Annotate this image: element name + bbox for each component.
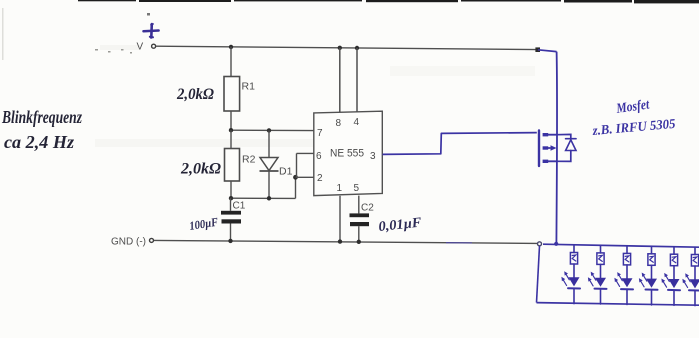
wire GND rail xyxy=(154,240,537,243)
svg-text:7: 7 xyxy=(317,128,323,139)
wire pin2 stub xyxy=(296,176,315,178)
svg-text:2: 2 xyxy=(317,173,323,184)
LED branch 4 xyxy=(639,247,658,305)
junction D1 bottom xyxy=(267,196,271,200)
svg-text:8: 8 xyxy=(336,118,342,129)
LED branch 3 xyxy=(614,246,633,304)
wire up to pin2 node xyxy=(295,177,297,198)
wire node to pin7 xyxy=(231,129,314,131)
junction R2/C1 xyxy=(229,196,233,200)
svg-text:GND (-): GND (-) xyxy=(111,237,146,248)
svg-text:R1: R1 xyxy=(242,81,256,93)
capacitor C1 xyxy=(221,198,246,241)
LED branch 2 xyxy=(588,246,607,304)
junction top rail / pin8 riser xyxy=(338,46,342,50)
junction GND/pin1 xyxy=(338,239,342,243)
LED branch 6 xyxy=(682,247,699,305)
resistor R2 xyxy=(225,149,256,182)
svg-text:NE 555: NE 555 xyxy=(330,148,364,160)
handwritten note Blinkfrequenz xyxy=(1,107,82,152)
svg-text:1: 1 xyxy=(337,183,343,194)
wire LED bank top rail xyxy=(543,244,699,247)
wire R2 bottom xyxy=(230,181,232,198)
junction D1 top xyxy=(267,128,271,132)
wire pin1 drop xyxy=(339,196,341,242)
wire pin6 stub xyxy=(297,152,315,154)
wire blue rail extension over mosfet xyxy=(538,50,557,52)
junction pin2/pin6 tie xyxy=(293,175,298,180)
faint scan smudges xyxy=(95,45,535,147)
LED branch 5 xyxy=(661,247,680,305)
wire pin3 to gate xyxy=(383,133,537,155)
LED branch 1 xyxy=(561,245,580,303)
wire R1 bottom xyxy=(230,111,232,130)
svg-text:C2: C2 xyxy=(361,203,374,214)
svg-text:5: 5 xyxy=(354,183,360,194)
transistor Q1 mosfet xyxy=(539,131,576,167)
junction GND/C2 xyxy=(357,240,361,244)
svg-text:4: 4 xyxy=(354,117,360,128)
svg-text:C1: C1 xyxy=(233,201,246,212)
svg-text:D1: D1 xyxy=(279,166,293,178)
junction top rail / R1 xyxy=(229,45,233,49)
svg-text:V: V xyxy=(137,42,144,53)
node LED bank terminal circle xyxy=(538,242,542,246)
faint pencil specks xyxy=(95,13,150,54)
svg-text:ca 2,4 Hz: ca 2,4 Hz xyxy=(4,132,74,152)
op-amp U1 NE555 box xyxy=(314,111,383,195)
junction R1/R2/pin7 xyxy=(229,128,233,132)
svg-text:6: 6 xyxy=(316,151,322,162)
wire LED bank bottom rail xyxy=(537,303,699,306)
wire pin4 riser xyxy=(356,48,358,112)
diode D1 xyxy=(260,130,293,198)
svg-text:3: 3 xyxy=(370,151,376,162)
svg-text:R2: R2 xyxy=(242,154,256,166)
junction drain/LED rail xyxy=(554,242,558,246)
left edge faint line xyxy=(2,8,4,60)
junction top rail / pin4 riser xyxy=(355,46,359,50)
svg-text:2,0kΩ: 2,0kΩ xyxy=(180,161,221,178)
end square of grey rail xyxy=(535,47,540,52)
wire pin6 tie vertical xyxy=(296,153,298,177)
scanner top edge strip xyxy=(78,0,699,3)
svg-text:2,0kΩ: 2,0kΩ xyxy=(176,86,214,103)
wire LED bank left edge xyxy=(537,246,540,303)
wire bottom node row xyxy=(231,197,296,199)
plus terminal symbol xyxy=(144,24,159,38)
wire pin5 drop xyxy=(358,196,360,214)
resistor R1 xyxy=(224,77,255,112)
wire R1 top xyxy=(230,47,232,77)
junction GND/C1 xyxy=(228,239,232,243)
svg-text:Blinkfrequenz: Blinkfrequenz xyxy=(1,107,82,127)
wire R2 top xyxy=(230,130,232,148)
wire GND blue retrace xyxy=(446,242,472,244)
capacitor C2 xyxy=(350,203,375,242)
wire top supply rail xyxy=(156,46,538,49)
wire pin8 riser xyxy=(339,48,341,113)
wire mosfet source/drain vertical xyxy=(555,52,558,244)
